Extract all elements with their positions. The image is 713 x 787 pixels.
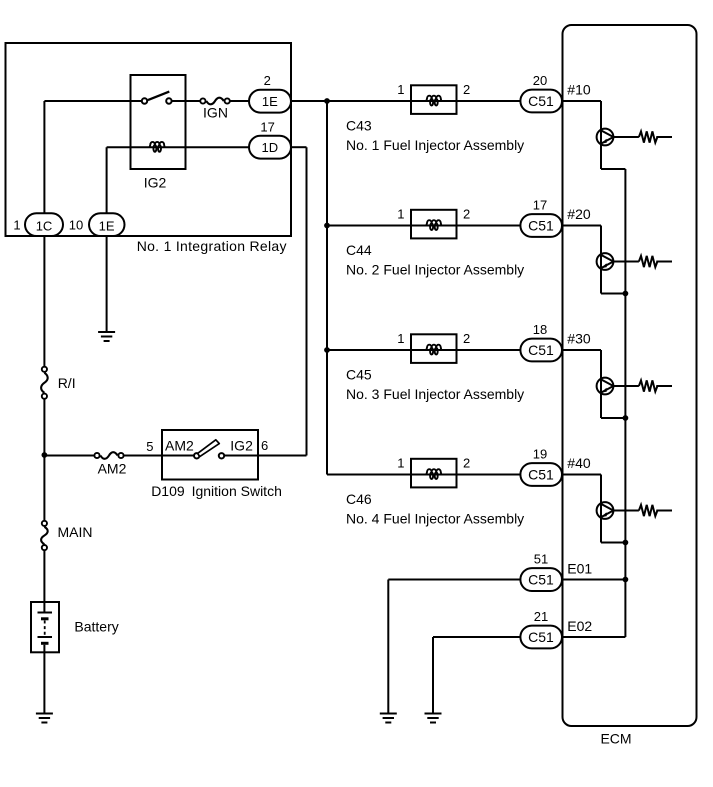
svg-text:IGN: IGN [203,105,228,121]
svg-text:1: 1 [397,331,404,346]
svg-text:1: 1 [13,218,20,233]
svg-text:No. 3 Fuel Injector Assembly: No. 3 Fuel Injector Assembly [346,386,524,402]
svg-text:2: 2 [463,331,470,346]
svg-text:C51: C51 [528,217,554,233]
svg-text:C51: C51 [528,93,554,109]
svg-text:2: 2 [264,73,271,88]
svg-text:R/I: R/I [58,375,76,391]
svg-text:No. 1 Integration Relay: No. 1 Integration Relay [137,238,287,254]
svg-text:C51: C51 [528,466,554,482]
svg-text:19: 19 [533,446,547,461]
svg-text:MAIN: MAIN [58,524,93,540]
svg-text:2: 2 [463,82,470,97]
svg-text:IG2: IG2 [144,175,167,191]
svg-text:21: 21 [534,609,548,624]
svg-text:Ignition Switch: Ignition Switch [192,483,282,499]
svg-text:1E: 1E [99,218,115,233]
svg-text:#40: #40 [567,455,591,471]
svg-text:C51: C51 [528,571,554,587]
svg-text:1: 1 [397,456,404,471]
svg-text:No. 1 Fuel Injector Assembly: No. 1 Fuel Injector Assembly [346,137,524,153]
svg-text:C45: C45 [346,367,372,383]
svg-text:20: 20 [533,73,547,88]
svg-text:Battery: Battery [74,619,118,635]
svg-text:AM2: AM2 [98,461,127,477]
svg-text:IG2: IG2 [230,438,253,454]
svg-text:1: 1 [397,207,404,222]
svg-text:2: 2 [463,456,470,471]
svg-text:1: 1 [397,82,404,97]
svg-text:C46: C46 [346,491,372,507]
svg-text:C44: C44 [346,242,372,258]
svg-text:E02: E02 [567,618,592,634]
svg-text:17: 17 [533,197,547,212]
svg-text:51: 51 [534,552,548,567]
svg-text:5: 5 [146,439,153,454]
svg-text:ECM: ECM [600,731,631,747]
svg-text:D109: D109 [151,483,185,499]
svg-text:17: 17 [260,120,274,135]
svg-text:#20: #20 [567,206,591,222]
svg-text:AM2: AM2 [165,438,194,454]
svg-text:No. 2 Fuel Injector Assembly: No. 2 Fuel Injector Assembly [346,262,524,278]
svg-text:1E: 1E [262,94,278,109]
svg-text:C51: C51 [528,342,554,358]
svg-text:E01: E01 [567,561,592,577]
svg-text:6: 6 [261,438,268,453]
svg-text:2: 2 [463,207,470,222]
svg-text:C51: C51 [528,629,554,645]
svg-text:C43: C43 [346,118,372,134]
svg-text:#10: #10 [567,82,591,98]
svg-text:18: 18 [533,322,547,337]
svg-text:1D: 1D [261,140,278,155]
svg-text:10: 10 [69,218,83,233]
svg-text:#30: #30 [567,331,591,347]
svg-text:1C: 1C [36,218,53,233]
svg-text:No. 4 Fuel Injector Assembly: No. 4 Fuel Injector Assembly [346,511,524,527]
